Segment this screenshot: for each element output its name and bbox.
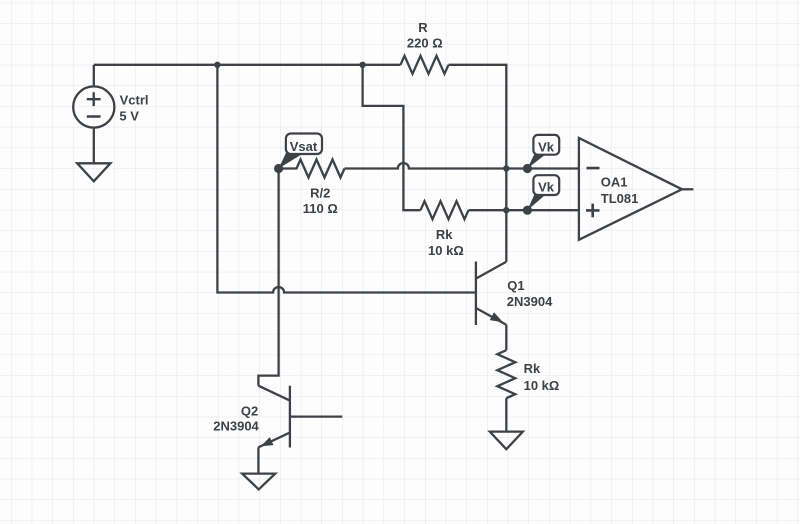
ground below Rk — [490, 432, 523, 450]
svg-text:Rk: Rk — [524, 361, 541, 376]
svg-text:Vsat: Vsat — [290, 139, 318, 154]
svg-text:Q1: Q1 — [507, 278, 524, 293]
node junction plus rail x=506.3 — [503, 207, 509, 213]
svg-text:10 kΩ: 10 kΩ — [524, 378, 560, 393]
svg-text:5 V: 5 V — [119, 109, 139, 124]
wire from R right side down to Q1 collector — [449, 65, 507, 262]
wire Q1 emitter to Rk — [505, 325, 507, 351]
transistor Q1 2N3904 NPN — [476, 262, 553, 326]
transistor Q2 2N3904 NPN mirrored — [213, 386, 290, 448]
wire Rk to ground — [505, 398, 507, 431]
svg-text:R: R — [418, 20, 428, 35]
svg-text:2N3904: 2N3904 — [507, 294, 553, 309]
wire minus-input rail with hop over x=403.4 to op-amp — [345, 163, 580, 169]
resistor R3 "Rk" 10k horizontal — [421, 201, 469, 258]
net tag Vk on plus input — [523, 175, 559, 215]
resistor R2 "R/2" 110 ohm with leads — [279, 160, 345, 217]
svg-text:220 Ω: 220 Ω — [407, 36, 443, 51]
svg-text:R/2: R/2 — [310, 186, 330, 201]
wire Q2 base stub — [290, 415, 342, 417]
svg-text:OA1: OA1 — [601, 175, 628, 190]
node junction minus rail x=506.3 — [503, 165, 509, 171]
svg-text:2N3904: 2N3904 — [213, 419, 259, 434]
node junction at x=217 on top rail — [214, 62, 220, 68]
svg-text:Rk: Rk — [436, 227, 453, 242]
wire op-amp output stub — [682, 188, 693, 190]
svg-text:Vk: Vk — [538, 180, 555, 195]
svg-text:10 kΩ: 10 kΩ — [428, 243, 464, 258]
wire top rail from Vctrl to resistor R — [94, 64, 401, 66]
svg-text:Vctrl: Vctrl — [120, 93, 149, 108]
wire jog from top rail down to plus-input rail — [363, 65, 421, 210]
wire plus-input rail to op-amp — [469, 209, 580, 211]
voltage source V1 Vctrl 5V — [73, 65, 148, 164]
wire Q2 emitter to ground — [257, 447, 259, 473]
op-amp U1 OA1 TL081 — [579, 138, 682, 240]
ground below Q2 — [242, 474, 275, 490]
wire Vsat vertical rail down to Q2 collector — [258, 169, 278, 386]
wire left vertical rail x=217 down and Q1 base wire with hop over x=278.6 — [217, 65, 476, 293]
svg-text:110 Ω: 110 Ω — [303, 201, 338, 216]
ground below Vctrl — [77, 163, 110, 181]
svg-text:Vk: Vk — [538, 139, 555, 154]
resistor R4 "Rk" 10k vertical — [497, 350, 559, 398]
net tag Vsat with pointer — [274, 134, 322, 174]
svg-text:Q2: Q2 — [241, 403, 258, 418]
svg-text:TL081: TL081 — [601, 191, 639, 206]
node junction at x=362.6 on top rail — [359, 62, 365, 68]
net tag Vk on minus input — [523, 135, 559, 173]
resistor R1 "R" zigzag 220 ohm — [401, 20, 449, 74]
